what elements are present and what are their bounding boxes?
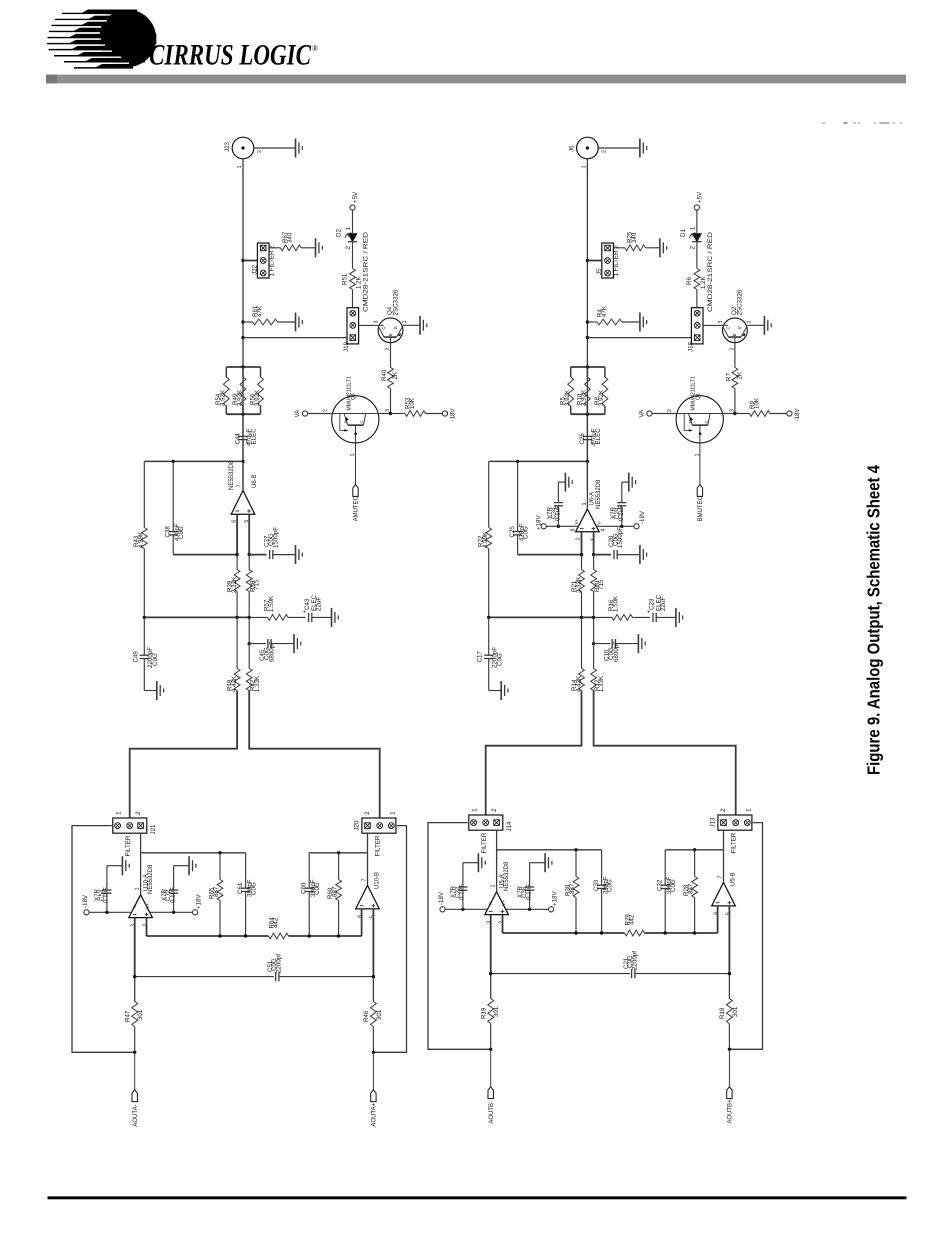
op-amp U5-B <box>712 872 737 915</box>
wire <box>664 889 666 933</box>
wire <box>594 643 611 645</box>
connector J23 <box>224 137 263 168</box>
svg-text:AOUTB+: AOUTB+ <box>728 1099 734 1124</box>
junction <box>487 616 490 619</box>
connector J13 <box>710 808 753 854</box>
wire <box>134 977 136 1002</box>
junction <box>489 1048 492 1051</box>
resistor R39 <box>227 555 240 618</box>
net flag AOUTB+ <box>727 1087 734 1124</box>
junction <box>241 460 244 463</box>
svg-text:C43: C43 <box>304 598 311 610</box>
svg-text:442: 442 <box>273 917 280 928</box>
svg-text:887: 887 <box>213 886 220 897</box>
ground <box>157 681 164 700</box>
wire <box>463 862 479 864</box>
wire <box>242 461 244 490</box>
wire <box>496 830 498 850</box>
junction <box>337 851 340 854</box>
wire <box>503 932 625 934</box>
svg-text:E: E <box>688 421 693 424</box>
junction <box>241 259 244 262</box>
svg-text:FILTER: FILTER <box>125 835 132 856</box>
junction <box>728 1048 731 1051</box>
ground <box>189 856 196 875</box>
ground <box>296 139 303 158</box>
svg-text:+18V: +18V <box>552 891 559 906</box>
svg-text:1500pF: 1500pF <box>617 527 624 548</box>
junction <box>389 412 392 415</box>
svg-text:NE5532D8: NE5532D8 <box>148 864 154 894</box>
wire <box>621 506 623 526</box>
svg-text:2: 2 <box>345 246 352 250</box>
wire <box>586 440 588 462</box>
capacitor C22 <box>450 884 467 900</box>
bottom rule <box>48 1196 907 1199</box>
svg-text:3: 3 <box>374 321 380 324</box>
svg-text:U5-B: U5-B <box>730 872 736 886</box>
svg-text:J18: J18 <box>688 341 695 352</box>
svg-text:340: 340 <box>287 232 294 243</box>
capacitor C37 <box>264 527 280 559</box>
svg-text:V+: V+ <box>574 518 579 524</box>
svg-text:B: B <box>732 333 737 336</box>
svg-text:Q1: Q1 <box>696 393 702 400</box>
svg-text:10K: 10K <box>754 397 761 409</box>
junction <box>308 934 311 937</box>
svg-text:J5: J5 <box>596 268 603 275</box>
junction <box>557 525 560 528</box>
connector J19 <box>343 308 358 352</box>
svg-text:3: 3 <box>487 921 493 924</box>
svg-text:C: C <box>381 326 386 329</box>
svg-text:R19: R19 <box>481 1007 488 1019</box>
wire <box>289 935 362 937</box>
net flag AOUTA+ <box>371 1090 378 1127</box>
junction <box>372 1051 375 1054</box>
svg-text:2: 2 <box>720 808 727 812</box>
wire <box>594 554 611 556</box>
resistor R9 <box>735 397 787 416</box>
connector J20 <box>354 811 397 857</box>
svg-text:2: 2 <box>689 246 696 250</box>
svg-text:ELEC: ELEC <box>595 428 602 445</box>
svg-text:887: 887 <box>688 883 695 894</box>
terminal VA <box>638 409 652 418</box>
wire <box>558 481 565 483</box>
junction <box>218 934 221 937</box>
svg-text:BMUTEC: BMUTEC <box>698 495 704 521</box>
wire <box>586 414 588 436</box>
junction <box>248 616 251 619</box>
wire <box>134 918 136 977</box>
svg-text:ELEC: ELEC <box>251 428 258 445</box>
svg-text:-18V: -18V <box>639 510 646 524</box>
terminal +18V <box>536 515 547 530</box>
capacitor C45 <box>259 639 276 662</box>
net flag BMUTEC <box>697 485 704 522</box>
wire <box>130 691 237 819</box>
junction <box>241 336 244 339</box>
svg-text:C: C <box>359 421 364 424</box>
capacitor C20 <box>608 527 624 559</box>
svg-text:Q3: Q3 <box>351 393 357 400</box>
wire <box>236 514 238 554</box>
wire <box>373 826 406 1053</box>
svg-text:C0G: C0G <box>152 653 159 666</box>
resistor R21 <box>571 555 584 618</box>
wire <box>173 554 237 556</box>
connector J6 <box>568 137 607 168</box>
wire <box>403 324 420 326</box>
wire <box>587 337 691 339</box>
svg-text:NE5532D8: NE5532D8 <box>229 460 235 490</box>
resistor R29 <box>624 914 644 936</box>
ground <box>294 634 301 653</box>
terminal -18V <box>442 408 456 422</box>
connector J5 <box>596 243 620 278</box>
wire <box>144 616 249 618</box>
svg-text:7: 7 <box>237 485 243 488</box>
wire <box>135 976 274 978</box>
svg-text:C61: C61 <box>237 882 244 894</box>
resistor R28 <box>683 850 697 933</box>
wire <box>728 1049 730 1087</box>
bank bus <box>571 367 605 414</box>
wire <box>428 823 491 1050</box>
wire <box>271 643 294 645</box>
svg-text:U6-A: U6-A <box>590 492 596 506</box>
svg-text:AOUTB-: AOUTB- <box>489 1101 495 1124</box>
svg-text:1.2K: 1.2K <box>356 275 363 289</box>
svg-text:J21: J21 <box>150 824 157 835</box>
wire <box>593 532 595 555</box>
transistor Q2 <box>718 289 753 350</box>
svg-text:10K: 10K <box>409 397 416 409</box>
wire <box>586 159 588 490</box>
junction <box>580 616 583 619</box>
resistor R56 <box>249 367 263 414</box>
junction <box>728 972 731 975</box>
gray header bar <box>46 75 906 84</box>
resistor R40 <box>381 343 399 414</box>
junction <box>133 1051 136 1054</box>
svg-text:2200pf: 2200pf <box>276 954 283 973</box>
wire <box>617 554 640 556</box>
svg-text:C32: C32 <box>657 879 664 891</box>
svg-text:0.1uF: 0.1uF <box>169 887 176 903</box>
svg-text:2: 2 <box>601 150 607 153</box>
wire <box>242 414 244 436</box>
svg-text:2SC3326: 2SC3326 <box>392 289 399 315</box>
svg-text:C60: C60 <box>301 882 308 894</box>
wire <box>635 973 729 975</box>
svg-text:C0G: C0G <box>607 879 614 892</box>
svg-text:2: 2 <box>667 409 673 412</box>
wire <box>502 915 504 933</box>
wire <box>622 481 629 483</box>
wire <box>557 482 559 502</box>
svg-text:2.32K: 2.32K <box>576 576 583 593</box>
op-amp U6-B <box>229 460 258 523</box>
svg-text:C: C <box>703 421 708 424</box>
junction <box>461 908 464 911</box>
junction <box>516 460 519 463</box>
resistor R61 <box>243 305 296 325</box>
wire <box>173 866 175 890</box>
junction <box>733 412 736 415</box>
svg-text:47K: 47K <box>257 305 264 317</box>
resistor R67 <box>269 231 316 251</box>
wire <box>245 892 247 936</box>
wire <box>699 443 701 485</box>
svg-text:V-: V- <box>488 901 493 906</box>
terminal +5V <box>694 191 703 210</box>
svg-text:C38: C38 <box>165 526 172 538</box>
wire <box>489 616 594 618</box>
junction <box>218 851 221 854</box>
svg-text:+18V: +18V <box>536 515 543 530</box>
LED D2 <box>336 227 370 313</box>
wire <box>445 908 487 910</box>
wire <box>249 554 266 556</box>
svg-text:1.33K: 1.33K <box>254 675 261 692</box>
resistor R54 <box>215 367 229 414</box>
svg-text:V+: V+ <box>145 903 150 909</box>
ground <box>296 545 303 564</box>
resistor R14 <box>571 617 585 692</box>
svg-text:8: 8 <box>571 529 577 532</box>
ground <box>501 681 508 700</box>
wire <box>279 976 373 978</box>
svg-text:2SC3326: 2SC3326 <box>737 289 744 315</box>
wire <box>598 147 640 149</box>
ground <box>640 545 647 564</box>
junction <box>600 931 603 934</box>
svg-text:1: 1 <box>472 808 479 812</box>
svg-text:U10-B: U10-B <box>374 872 380 889</box>
figure caption <box>864 465 884 775</box>
ground <box>629 473 636 492</box>
wire <box>723 413 735 415</box>
ground <box>565 473 572 492</box>
svg-text:887: 887 <box>332 886 339 897</box>
resistor R18 <box>719 999 739 1050</box>
wire <box>601 889 603 933</box>
wire <box>248 514 250 554</box>
svg-text:V-: V- <box>597 520 602 525</box>
resistor R20 <box>591 555 605 618</box>
svg-text:C26: C26 <box>579 433 586 445</box>
svg-text:4.99K: 4.99K <box>482 531 489 548</box>
connector J18 <box>688 308 703 352</box>
wire <box>249 643 266 645</box>
junction <box>248 642 251 645</box>
wire <box>107 865 123 867</box>
capacitor C60 <box>301 879 322 897</box>
wire <box>546 525 578 527</box>
svg-text:2: 2 <box>323 409 329 412</box>
resistor R51 <box>342 242 363 308</box>
wire <box>506 908 549 910</box>
svg-text:C17: C17 <box>477 651 484 663</box>
svg-text:2200pf: 2200pf <box>632 951 639 970</box>
svg-text:2: 2 <box>364 811 371 815</box>
ground <box>296 313 303 332</box>
junction <box>693 848 696 851</box>
LED D1 <box>680 227 714 313</box>
svg-text:1: 1 <box>582 166 588 169</box>
wire <box>497 849 602 851</box>
capacitor C17 <box>477 647 504 668</box>
wire <box>379 413 391 415</box>
svg-text:CIRRUS LOGIC: CIRRUS LOGIC <box>149 40 311 72</box>
svg-text:R47: R47 <box>125 1010 132 1022</box>
svg-text:J14: J14 <box>506 821 513 832</box>
wire <box>517 535 519 555</box>
svg-text:Figure 9. Analog Output, Sche: Figure 9. Analog Output, Schematic Sheet… <box>864 465 884 775</box>
svg-text:1: 1 <box>389 811 396 815</box>
net flag AOUTB- <box>488 1087 495 1124</box>
wire <box>141 852 246 854</box>
svg-text:E: E <box>737 326 742 329</box>
ground <box>640 313 647 332</box>
capacitor C72 <box>161 887 178 903</box>
junction <box>586 320 589 323</box>
junction <box>372 975 375 978</box>
Cirrus Logic globe logo <box>40 10 156 69</box>
op-amp U6-A <box>571 479 607 541</box>
wire <box>147 935 269 937</box>
svg-text:2: 2 <box>491 808 498 812</box>
wire <box>529 863 531 887</box>
svg-text:1: 1 <box>237 166 243 169</box>
wire <box>489 690 502 692</box>
wire <box>172 535 174 555</box>
junction <box>693 931 696 934</box>
capacitor C38 <box>165 523 185 541</box>
svg-text:1: 1 <box>689 227 696 231</box>
capacitor C32 <box>657 876 678 894</box>
svg-text:C: C <box>725 326 730 329</box>
capacitor C36 <box>517 884 534 900</box>
transistor Q3 <box>323 376 392 456</box>
wire <box>747 324 764 326</box>
wire <box>372 1052 374 1090</box>
wire <box>89 911 131 913</box>
svg-text:R40: R40 <box>381 369 388 381</box>
wire <box>254 147 296 149</box>
net flag AMUTEC <box>353 485 360 522</box>
junction <box>580 553 583 556</box>
svg-text:3.92K: 3.92K <box>220 389 227 406</box>
svg-text:MMUN2111LT1: MMUN2111LT1 <box>691 376 697 410</box>
ground <box>420 316 427 335</box>
svg-text:3.92K: 3.92K <box>564 389 571 406</box>
svg-text:1500pF: 1500pF <box>273 527 280 548</box>
wire <box>309 852 367 854</box>
svg-text:3.92K: 3.92K <box>598 389 605 406</box>
connector J21 <box>113 811 157 857</box>
junction <box>172 911 175 914</box>
svg-text:22uF: 22uF <box>316 597 323 611</box>
svg-text:0.1uF: 0.1uF <box>525 884 532 900</box>
capacitor C34 <box>547 503 564 521</box>
wire <box>143 659 145 691</box>
svg-text:FILTER: FILTER <box>481 832 488 853</box>
svg-text:AOUTA-: AOUTA- <box>133 1104 139 1126</box>
resistor R19 <box>481 999 501 1050</box>
svg-text:C0G: C0G <box>523 526 530 539</box>
wire <box>728 974 730 999</box>
ground <box>640 139 647 158</box>
svg-text:NE5532D8: NE5532D8 <box>596 479 602 509</box>
wire <box>173 893 175 912</box>
junction <box>143 616 146 619</box>
wire <box>174 865 190 867</box>
resistor R12 <box>591 617 606 692</box>
wire <box>616 643 639 645</box>
wire <box>664 850 666 885</box>
bank bus <box>226 367 260 414</box>
wire <box>140 833 142 853</box>
junction <box>574 848 577 851</box>
svg-text:FILTER: FILTER <box>374 835 381 856</box>
svg-text:C23: C23 <box>649 598 656 610</box>
wire <box>601 850 603 885</box>
transistor Q4 <box>374 289 409 350</box>
wire <box>557 506 559 526</box>
svg-text:1: 1 <box>694 454 700 457</box>
svg-text:+18V: +18V <box>196 894 203 909</box>
svg-text:4.42K: 4.42K <box>575 675 582 692</box>
svg-text:-18V: -18V <box>794 408 801 422</box>
svg-text:VA: VA <box>294 409 301 418</box>
wire <box>723 850 725 883</box>
ground <box>676 608 683 627</box>
resistor R7 <box>726 343 744 414</box>
resistor R49 <box>232 367 246 414</box>
junction <box>241 320 244 323</box>
junction <box>241 413 244 416</box>
svg-text:301: 301 <box>493 1006 500 1017</box>
net flag AOUTA- <box>132 1090 139 1127</box>
svg-text:C0G: C0G <box>670 879 677 892</box>
wire <box>596 525 634 527</box>
svg-text:3: 3 <box>718 321 724 324</box>
svg-text:MMUN2111LT1: MMUN2111LT1 <box>346 376 352 410</box>
wire <box>359 324 378 326</box>
svg-text:1.33K: 1.33K <box>598 675 605 692</box>
svg-text:2K: 2K <box>737 371 744 379</box>
resistor R30 <box>565 850 579 933</box>
svg-text:C0G: C0G <box>496 653 503 666</box>
junction <box>235 553 238 556</box>
svg-text:3: 3 <box>730 409 736 412</box>
wire <box>696 210 698 233</box>
svg-text:J19: J19 <box>343 341 350 352</box>
svg-text:0.1uF: 0.1uF <box>103 887 110 903</box>
wire <box>372 909 374 977</box>
connector J14 <box>469 808 513 854</box>
svg-text:FILTER: FILTER <box>730 832 737 853</box>
svg-text:D2: D2 <box>336 229 343 237</box>
svg-text:3.92K: 3.92K <box>254 389 261 406</box>
wire <box>106 893 108 912</box>
junction <box>244 934 247 937</box>
terminal VA <box>294 409 308 418</box>
svg-text:1: 1 <box>135 888 141 891</box>
